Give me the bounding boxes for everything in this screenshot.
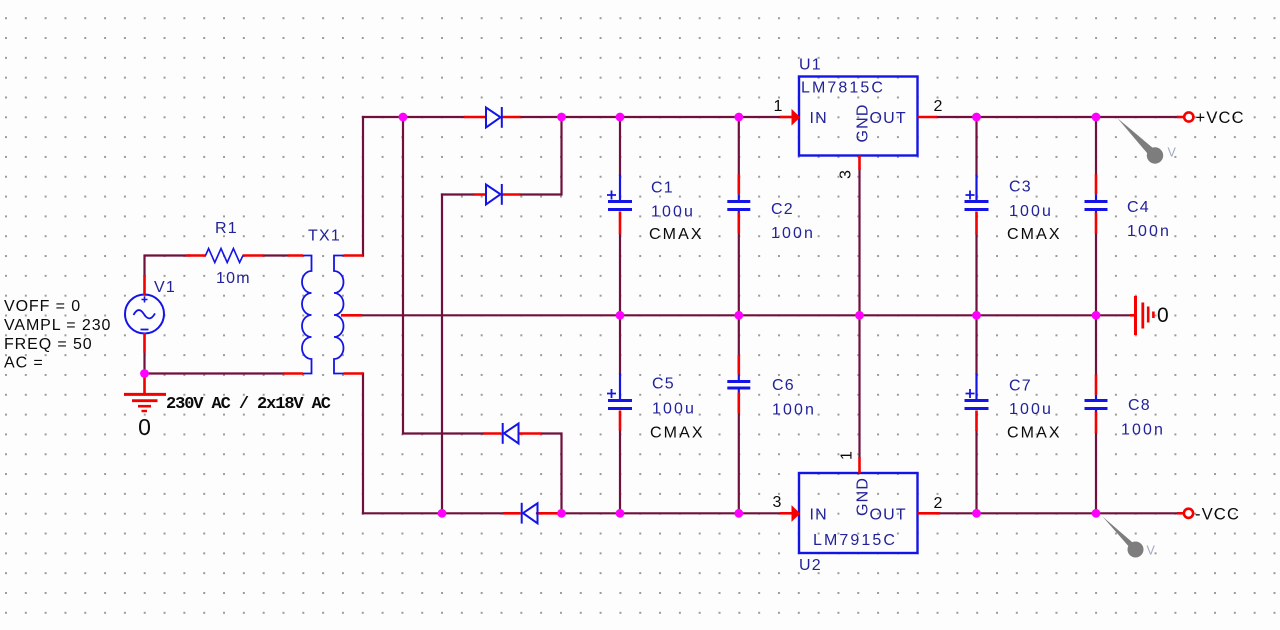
svg-text:AC =: AC = — [4, 355, 44, 372]
op-amp U1 regulator box LM7815C — [799, 77, 918, 156]
wire C4 top tap — [1095, 117, 1097, 174]
wire top rail: TX1 corner to D1 anode — [363, 116, 464, 118]
junction dots (magenta) — [140, 113, 1100, 518]
diode D4 (points left) — [522, 503, 538, 524]
resistor R1 pins (red) — [186, 254, 264, 257]
svg-text:1: 1 — [839, 451, 856, 460]
transformer TX1 center tap pin (red) — [341, 314, 362, 317]
transformer TX1 secondary winding — [334, 256, 344, 374]
wire R1 right to TX1 primary (dark segment) — [264, 254, 289, 256]
svg-text:C4: C4 — [1127, 199, 1150, 216]
svg-text:100u: 100u — [1009, 203, 1053, 220]
svg-text:IN: IN — [810, 507, 828, 524]
wire vertical x=403: top rail down to D3 row — [403, 117, 483, 434]
V1 pin bottom (red) — [143, 333, 146, 353]
ground symbol 0 under V1 (red bars) — [124, 376, 166, 411]
capacitor C6 — [727, 375, 750, 393]
V1 parameter text VOFF/VAMPL/FREQ/AC — [4, 298, 111, 372]
svg-text:V: V — [1147, 544, 1156, 558]
node top rail junctions — [399, 113, 408, 122]
wire D2 cathode up to top rail — [521, 117, 562, 195]
svg-text:10m: 10m — [216, 270, 251, 287]
V1 pin top (red) — [143, 275, 146, 295]
wire TX1 secondary bottom down to bottom rail — [362, 374, 364, 514]
svg-text:2: 2 — [934, 98, 943, 115]
wire TX1 secondary top up to top rail — [362, 117, 364, 256]
U1 pin 3 (red) — [858, 156, 861, 171]
svg-text:3: 3 — [773, 494, 782, 511]
capacitor C6 top pin (red) — [737, 355, 740, 375]
svg-text:0: 0 — [1157, 304, 1169, 327]
capacitor C4 — [1085, 194, 1108, 214]
wire C2 bottom to ground rail — [738, 234, 740, 316]
wire C1 bottom to ground rail — [619, 234, 621, 315]
capacitor C3 (polar) — [965, 175, 989, 210]
wire bottom rail: D4 to U2 pin3 (passes C5,C6 taps) — [537, 512, 780, 514]
wire ground rail down to U2 pin1 — [858, 315, 860, 457]
svg-text:C5: C5 — [652, 376, 675, 393]
voltage probe marker bottom (gray) — [1103, 517, 1144, 558]
capacitor C5 bottom pin (red) — [619, 411, 622, 431]
capacitor C1 (polar) — [607, 175, 632, 210]
svg-text:C6: C6 — [772, 377, 795, 394]
wire U2 pin2 to -VCC terminal — [940, 512, 1177, 514]
wire bottom rail: TX1 corner to D4 — [363, 512, 503, 514]
wire top rail: D1 cathode to U1 pin1 (passes C1,C2 taps) — [521, 116, 781, 118]
wire C7 bottom to bottom rail — [975, 431, 977, 513]
wire V1 top to R1 (horizontal, y=255.5) — [145, 256, 191, 276]
source V1 (AC sine source) — [125, 295, 164, 334]
svg-text:3: 3 — [838, 170, 855, 179]
diode D3 (points left) — [503, 423, 519, 444]
wire C6 bottom to bottom rail — [738, 413, 740, 513]
svg-text:C2: C2 — [771, 201, 794, 218]
svg-text:VOFF = 0: VOFF = 0 — [4, 298, 81, 315]
svg-text:OUT: OUT — [870, 507, 907, 524]
svg-text:C7: C7 — [1009, 378, 1032, 395]
svg-text:C8: C8 — [1128, 397, 1151, 414]
svg-text:100u: 100u — [652, 401, 696, 418]
capacitor C5 (polar) — [607, 373, 632, 408]
capacitor C3 bottom pin (red) — [975, 212, 978, 235]
capacitor C8 bottom pin (red) — [1095, 412, 1098, 434]
svg-text:100n: 100n — [1121, 422, 1165, 439]
voltage probe marker top (gray) — [1118, 118, 1164, 164]
U2 pin 1 (red) — [858, 457, 861, 473]
resistor R1 body (zigzag) — [206, 249, 243, 263]
U2 pin 3 (red, arrow into IN) — [780, 506, 800, 520]
wire V1 bottom node to TX1 primary bottom — [145, 353, 284, 377]
wire C3 top tap — [975, 117, 977, 175]
capacitor C7 bottom pin (red) — [975, 411, 978, 432]
node V1 minus junction — [140, 369, 149, 378]
svg-text:FREQ = 50: FREQ = 50 — [4, 336, 93, 353]
wire C2 top tap from top rail — [738, 117, 740, 174]
transformer TX1 primary pins (red) — [283, 256, 303, 374]
ground symbol 0 right (red bars) — [1130, 296, 1153, 335]
svg-text:100u: 100u — [1009, 401, 1053, 418]
svg-text:CMAX: CMAX — [1007, 226, 1062, 243]
svg-text:230V AC / 2x18V AC: 230V AC / 2x18V AC — [166, 395, 331, 414]
wire ground rail: TX1 center tap to ground symbol — [362, 314, 1133, 316]
wire C6 top from ground rail — [738, 315, 740, 355]
capacitor C6 bottom pin (red) — [737, 393, 740, 414]
capacitor C8 — [1085, 395, 1108, 413]
svg-text:-VCC: -VCC — [1195, 506, 1240, 524]
diode D1 (points right) — [486, 107, 502, 128]
wire C1 top tap from top rail — [619, 117, 621, 175]
svg-text:GND: GND — [855, 477, 872, 516]
svg-text:VAMPL = 230: VAMPL = 230 — [4, 317, 111, 334]
U1 pin 2 (red) — [918, 116, 938, 119]
svg-text:1: 1 — [774, 98, 783, 115]
wire D2 row: corner to D2 anode — [442, 193, 473, 195]
wire C7 top from ground rail — [975, 315, 977, 373]
U2 pin 2 (red) — [918, 512, 941, 515]
wire vertical x=442: D2 row down to bottom rail — [441, 195, 443, 514]
op-amp U2 regulator box LM7915C — [799, 473, 918, 553]
capacitor C7 (polar) — [965, 373, 989, 408]
capacitor C4 bottom pin (red) — [1095, 213, 1098, 234]
svg-text:OUT: OUT — [870, 110, 907, 127]
wire U1 pin3 down to ground rail — [858, 169, 860, 316]
svg-text:C3: C3 — [1009, 179, 1032, 196]
svg-text:100n: 100n — [771, 225, 815, 242]
diode D3 pins (red) — [483, 432, 542, 435]
svg-text:CMAX: CMAX — [1007, 425, 1062, 442]
wire C3 bottom to ground rail — [975, 234, 977, 315]
svg-text:100n: 100n — [1127, 223, 1171, 240]
diode D4 pins (red) — [503, 512, 562, 515]
svg-text:0: 0 — [138, 414, 151, 440]
svg-text:TX1: TX1 — [308, 228, 341, 245]
svg-text:V1: V1 — [154, 279, 176, 296]
transformer TX1 primary winding — [302, 256, 312, 374]
capacitor C2 top pin (red) — [737, 174, 740, 194]
svg-text:CMAX: CMAX — [649, 226, 704, 243]
wire U1 pin2 to +VCC terminal — [937, 116, 1177, 118]
svg-text:100n: 100n — [772, 402, 816, 419]
wire C5 bottom to bottom rail — [619, 431, 621, 514]
svg-text:U2: U2 — [799, 557, 822, 574]
node bottom rail junctions — [438, 509, 447, 518]
terminal -VCC (red circle) — [1177, 512, 1184, 515]
terminal +VCC (red circle) — [1177, 116, 1184, 119]
svg-text:LM7915C: LM7915C — [813, 532, 897, 549]
svg-text:CMAX: CMAX — [650, 425, 705, 442]
svg-text:IN: IN — [810, 110, 828, 127]
capacitor C2 — [727, 194, 750, 214]
node ground rail junctions — [616, 311, 625, 320]
svg-text:C1: C1 — [651, 180, 674, 197]
U1 pin 1 (red, arrow into IN) — [780, 110, 800, 124]
svg-text:R1: R1 — [215, 220, 238, 237]
diode D1 pins (red) — [464, 116, 521, 119]
diode D2 (points right) — [486, 184, 502, 205]
capacitor C8 top pin (red) — [1095, 375, 1098, 395]
svg-text:100u: 100u — [651, 204, 695, 221]
transformer TX1 secondary pins (red) — [344, 256, 364, 374]
svg-text:LM7815C: LM7815C — [801, 80, 885, 97]
capacitor C1 bottom pin (red) — [619, 212, 622, 235]
wire C8 bottom to bottom rail — [1095, 433, 1097, 513]
svg-text:+VCC: +VCC — [1196, 109, 1245, 127]
wire D3 cathode-side corner down to bottom rail — [542, 434, 562, 514]
capacitor C2 bottom pin (red) — [737, 213, 740, 234]
svg-text:U1: U1 — [799, 57, 822, 74]
wire C4 bottom to ground rail — [1095, 234, 1097, 316]
wire C8 top from ground rail — [1095, 315, 1097, 374]
svg-text:V: V — [1168, 146, 1177, 160]
svg-text:2: 2 — [934, 495, 943, 512]
capacitor C4 top pin (red) — [1095, 174, 1098, 194]
svg-text:GND: GND — [855, 103, 872, 142]
diode D2 pins (red) — [473, 193, 521, 196]
wire C5 top from ground rail — [619, 315, 621, 373]
